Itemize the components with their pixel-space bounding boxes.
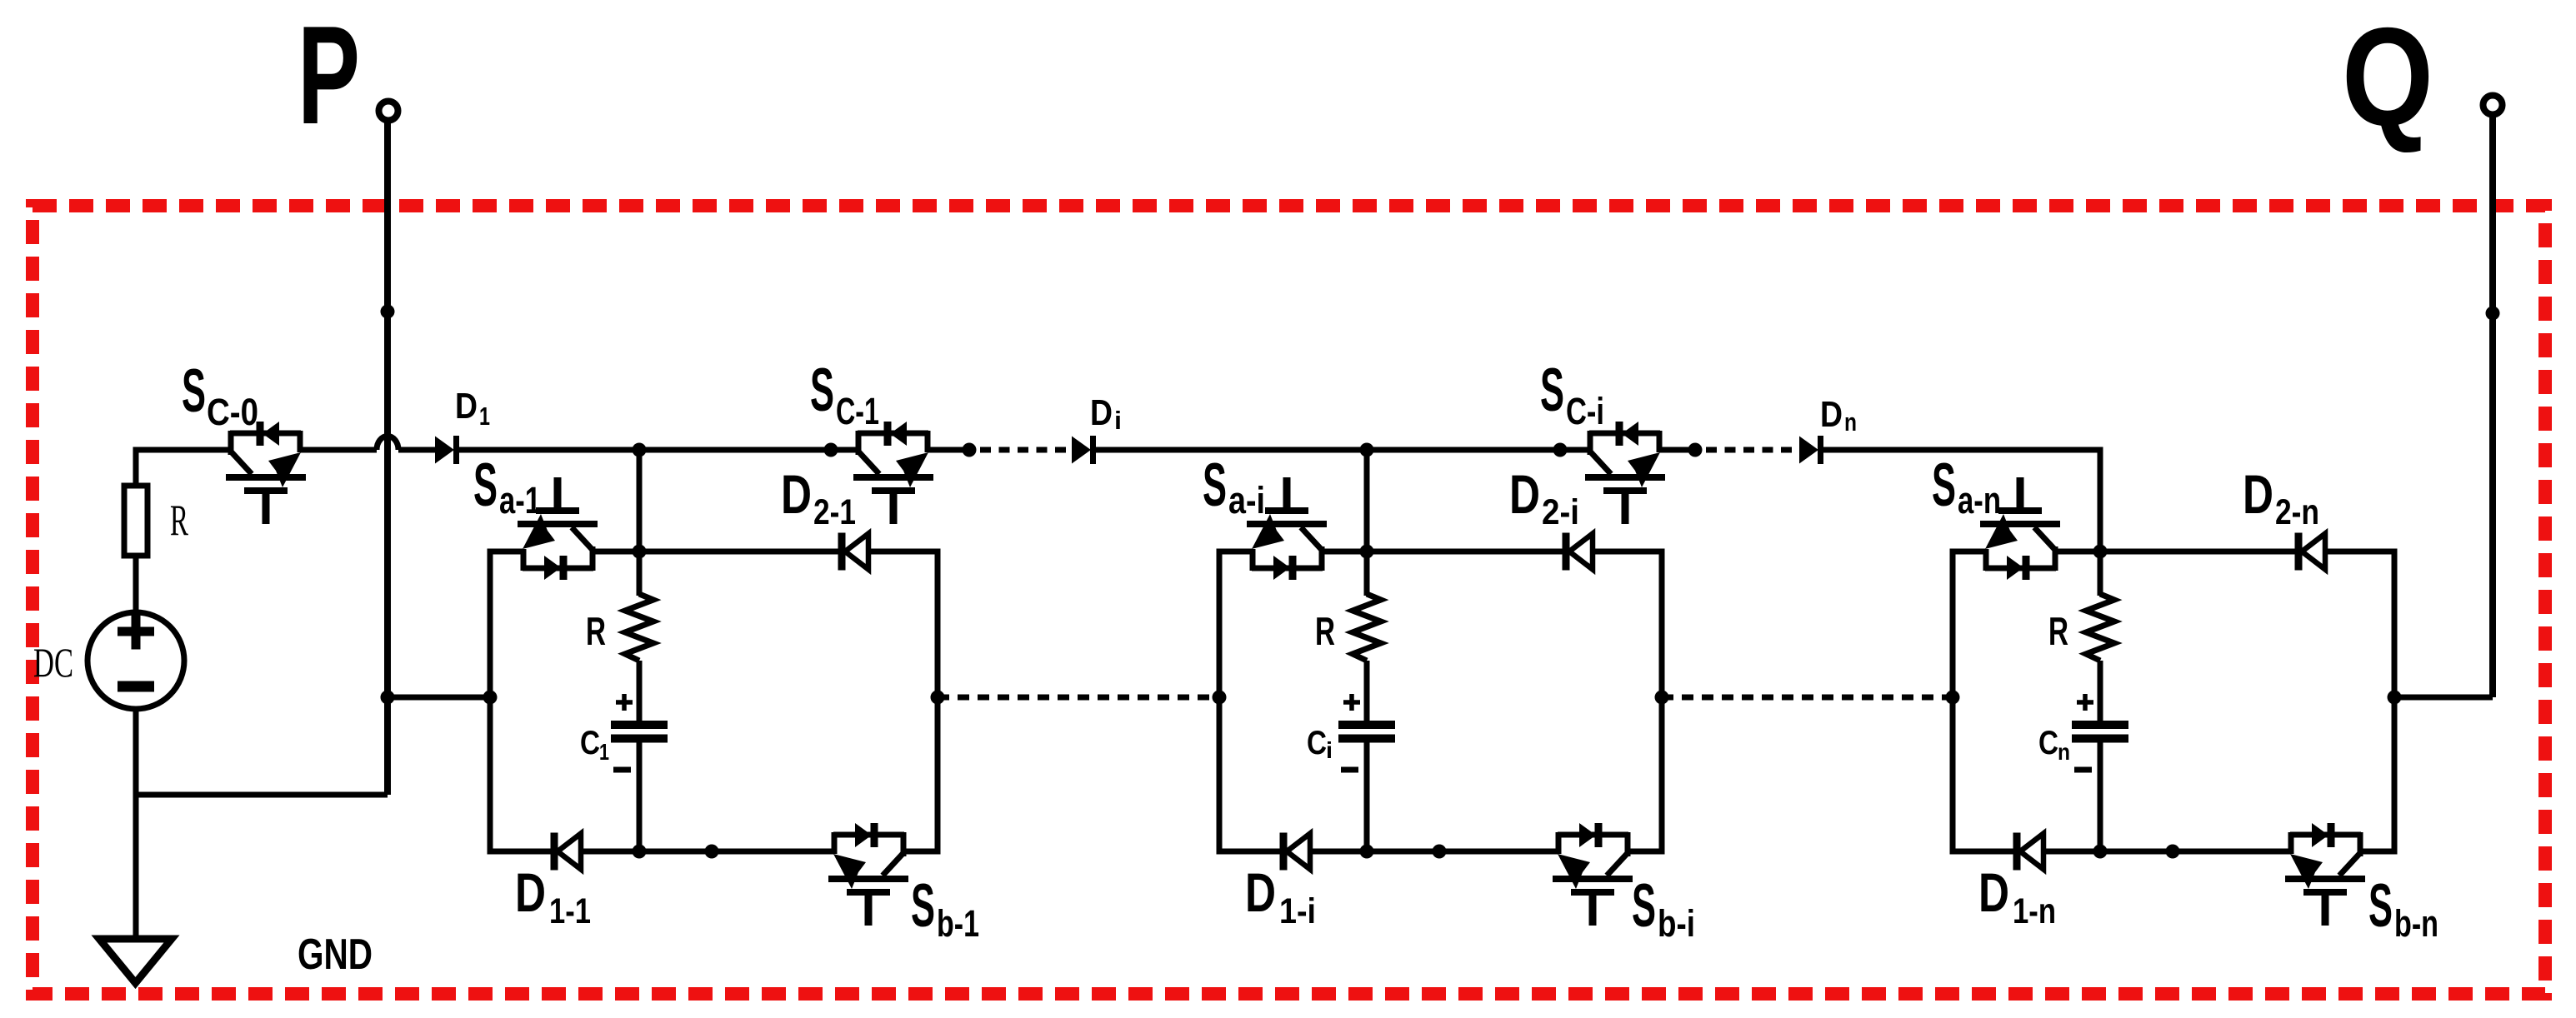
svg-text:Q: Q: [2342, 0, 2433, 155]
capacitor Cn plus sign: [2077, 694, 2093, 711]
svg-text:S: S: [2368, 872, 2393, 940]
diode D_i: [1072, 436, 1093, 464]
svg-text:1-n: 1-n: [2013, 891, 2056, 931]
wire D_n to cell-n corner: [1823, 447, 2100, 453]
wire R to DC source: [133, 556, 139, 613]
resistor R (cell i): [1353, 594, 1381, 661]
svg-text:b-1: b-1: [937, 902, 979, 945]
svg-text:S: S: [810, 357, 834, 424]
resistor R (cell 1): [625, 594, 653, 661]
node cell-i bottom extra: [1433, 845, 1447, 859]
wire P vertical lead: [384, 122, 391, 795]
wire D_1-1 to S_b-1: [581, 849, 834, 855]
wire cell-i column upper: [1364, 551, 1370, 596]
node cell-n bottom / column: [2093, 845, 2108, 859]
svg-text:a-i: a-i: [1228, 479, 1265, 521]
node bus after S_C-i: [1688, 443, 1703, 457]
wire capacitor Cn to bottom: [2098, 739, 2103, 852]
wire bus dashed continuation 2: [1706, 447, 1797, 453]
wire D_1-n to S_b-n: [2043, 849, 2291, 855]
svg-text:b-n: b-n: [2394, 902, 2438, 945]
node cell-n left wire junction: [1946, 691, 1960, 705]
wire cell-n right side: [2392, 549, 2398, 855]
node bus after S_C-1: [963, 443, 977, 457]
node bus at S_C-1 input: [824, 443, 838, 457]
terminal P open circle: [379, 102, 398, 121]
wire D_1 to S_C-1: [459, 447, 858, 453]
svg-text:D: D: [1509, 463, 1540, 525]
ground symbol GND: [99, 939, 172, 983]
svg-text:S: S: [1203, 452, 1227, 519]
svg-text:b-i: b-i: [1658, 902, 1695, 945]
wire cell-1 right side: [935, 549, 941, 855]
wire cell-i left side: [1217, 549, 1223, 855]
node bus / cell-1 column: [633, 443, 647, 457]
svg-text:2-n: 2-n: [2275, 492, 2319, 532]
node cell-1 bottom extra: [705, 845, 719, 859]
node cell-i bottom / column: [1360, 845, 1374, 859]
wire DC source to ground: [133, 709, 139, 940]
IGBT switch S_C-1: [853, 422, 933, 524]
IGBT switch S_C-i: [1585, 422, 1665, 524]
IGBT switch S_b-1: [828, 823, 908, 926]
wire cell-i right side: [1659, 549, 1665, 855]
wire S_C-i output: [1659, 447, 1695, 453]
svg-text:D: D: [1245, 861, 1276, 923]
wire S_b-1 to right side: [903, 849, 938, 855]
svg-text:D: D: [515, 861, 546, 923]
wire hop over P lead: [377, 437, 398, 451]
resistor R (cell n): [2086, 594, 2114, 661]
node cell-i left wire junction: [1213, 691, 1227, 705]
capacitor Cn: [2072, 725, 2128, 739]
svg-text:S: S: [1632, 872, 1656, 940]
capacitor Cn minus sign: [2074, 767, 2092, 773]
svg-text:S: S: [473, 452, 498, 519]
diode D_2-i: [1566, 533, 1593, 571]
svg-text:R: R: [170, 497, 188, 545]
node on P lead: [381, 305, 395, 319]
wire cell-n right to Q lead: [2394, 695, 2493, 701]
wire S_a-n to D_2 diode: [2055, 549, 2295, 555]
node cell-n bottom extra: [2166, 845, 2180, 859]
wire cell-n left side: [1950, 549, 1956, 855]
wire cell-n column upper: [2098, 551, 2103, 596]
node bus / cell-i column: [1360, 443, 1374, 457]
svg-text:R: R: [2048, 609, 2068, 653]
node on Q lead: [2486, 307, 2500, 321]
capacitor C1: [611, 725, 668, 739]
node cell-1 top / column: [633, 545, 647, 559]
svg-text:D: D: [1820, 394, 1843, 435]
resistor R (input): [124, 486, 148, 556]
wire hop to D_1: [398, 447, 435, 453]
IGBT switch S_a-1: [518, 477, 598, 580]
node cell-1 bottom / column: [633, 845, 647, 859]
svg-text:C-1: C-1: [836, 390, 879, 432]
wire cell-1 top left: [490, 549, 523, 555]
capacitor Ci minus sign: [1341, 767, 1358, 773]
IGBT switch S_b-n: [2285, 823, 2365, 926]
IGBT switch S_C-0: [226, 422, 306, 524]
node cell-i right wire junction: [1655, 691, 1669, 705]
DC source minus sign: [118, 681, 154, 692]
wire S_b-i to right side: [1628, 849, 1662, 855]
wire D_2-1 to right side: [868, 549, 938, 555]
svg-text:i: i: [1114, 406, 1122, 435]
node bus at S_C-i input: [1553, 443, 1568, 457]
svg-text:C-0: C-0: [207, 391, 258, 433]
dashed link cell-i to cell-n: [1662, 695, 1953, 701]
svg-text:n: n: [1844, 407, 1857, 437]
wire resistor to capacitor Cn: [2098, 661, 2103, 725]
dashed link cell-1 to cell-i: [938, 695, 1219, 701]
svg-text:2-1: 2-1: [813, 492, 856, 532]
wire S_a-i to D_2 diode: [1322, 549, 1563, 555]
node P lead junction: [381, 691, 395, 705]
diode D_1-i: [1283, 833, 1310, 871]
wire S_b-n to right side: [2360, 849, 2394, 855]
svg-text:S: S: [182, 357, 206, 425]
svg-text:S: S: [1932, 452, 1956, 519]
DC source plus sign: [118, 614, 154, 650]
wire cell-n top left: [1953, 549, 1986, 555]
svg-text:a-n: a-n: [1958, 479, 2001, 521]
node cell-n right wire junction: [2388, 691, 2402, 705]
wire capacitor C1 to bottom: [637, 739, 643, 852]
svg-text:C-i: C-i: [1566, 390, 1604, 432]
svg-text:D: D: [1978, 861, 2009, 923]
svg-text:1-1: 1-1: [549, 891, 591, 931]
svg-text:D: D: [781, 463, 812, 525]
wire bus dashed continuation: [980, 447, 1072, 453]
svg-text:DC: DC: [33, 639, 73, 686]
terminal Q open circle: [2483, 96, 2503, 115]
svg-text:1: 1: [599, 739, 609, 765]
capacitor C1 plus sign: [616, 694, 633, 711]
diode D_2-1: [842, 533, 868, 571]
DC voltage source: [88, 612, 184, 709]
svg-text:C: C: [580, 725, 600, 761]
wire cell-n bottom left: [1953, 849, 2013, 855]
svg-text:R: R: [1315, 609, 1335, 653]
diode D_n: [1799, 436, 1821, 464]
wire DC branch top corner vertical: [133, 447, 139, 487]
capacitor Ci plus sign: [1343, 694, 1360, 711]
wire S_C-1 output: [928, 447, 969, 453]
wire cell-1 column upper: [637, 551, 643, 596]
svg-text:GND: GND: [298, 931, 373, 979]
node cell-i top / column: [1360, 545, 1374, 559]
IGBT switch S_a-i: [1247, 477, 1327, 580]
wire cell-1 bottom left: [490, 849, 551, 855]
diode D_1: [435, 436, 457, 464]
wire bus corner down into cell n: [2098, 447, 2103, 552]
svg-text:D: D: [2243, 463, 2273, 525]
wire resistor to capacitor Ci: [1364, 661, 1370, 725]
wire D_2-n to right side: [2325, 549, 2394, 555]
svg-text:S: S: [911, 872, 935, 940]
wire cell-1 left side: [488, 549, 493, 855]
wire S_C-0 to crossover hop: [300, 447, 377, 453]
diode D_2-n: [2298, 533, 2325, 571]
wire D_2-i to right side: [1593, 549, 1662, 555]
node cell-1 right wire junction: [931, 691, 945, 705]
svg-text:D: D: [1090, 392, 1113, 433]
wire cell-i bottom left: [1219, 849, 1280, 855]
wire S_a-1 to D_2 diode: [593, 549, 838, 555]
capacitor Ci: [1338, 725, 1395, 739]
svg-text:1-i: 1-i: [1279, 891, 1316, 931]
svg-text:P: P: [298, 0, 360, 153]
svg-text:C: C: [2038, 725, 2058, 761]
svg-text:R: R: [586, 609, 606, 653]
svg-text:1: 1: [479, 402, 490, 431]
svg-text:S: S: [1540, 357, 1564, 424]
wire D_1-i to S_b-i: [1310, 849, 1558, 855]
diode D_1-1: [554, 833, 581, 871]
svg-text:D: D: [455, 386, 478, 427]
wire D_i to S_C-i: [1096, 447, 1590, 453]
wire bus to cell-1 top: [637, 450, 643, 551]
IGBT switch S_b-i: [1553, 823, 1633, 926]
red dashed enclosure border: [33, 206, 2545, 994]
svg-text:a-1: a-1: [499, 479, 541, 521]
wire cell-i top left: [1219, 549, 1253, 555]
wire DC branch to S_C-0: [133, 447, 232, 453]
capacitor C1 minus sign: [613, 767, 631, 773]
wire bus to cell-i top: [1364, 450, 1370, 551]
wire Q vertical lead: [2489, 116, 2496, 697]
wire capacitor Ci to bottom: [1364, 739, 1370, 852]
svg-text:2-i: 2-i: [1542, 492, 1579, 532]
node cell-1 left wire junction: [483, 691, 498, 705]
diode D_1-n: [2017, 833, 2043, 871]
wire DC negative to P lead bottom: [136, 792, 388, 798]
wire resistor to capacitor C1: [637, 661, 643, 725]
svg-text:i: i: [1326, 737, 1333, 763]
IGBT switch S_a-n: [1980, 477, 2060, 580]
svg-text:C: C: [1307, 725, 1327, 761]
wire P lead to cell-1 left: [388, 695, 490, 701]
svg-text:n: n: [2058, 739, 2070, 765]
node cell-n top / column: [2093, 545, 2108, 559]
